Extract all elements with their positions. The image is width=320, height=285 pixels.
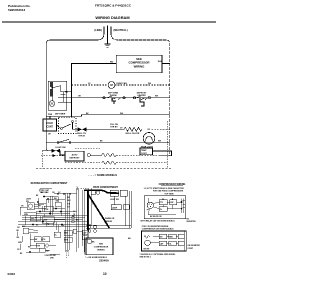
wire color labels main [48,83,162,143]
fridge bottom corner wires [67,238,85,259]
svg-text:CONTROL BD: CONTROL BD [45,255,57,257]
cold control box [43,119,57,131]
svg-text:MULL ON HTR: MULL ON HTR [126,133,140,135]
fridge control label [18,225,25,244]
svg-text:WIRING: WIRING [97,250,105,252]
svg-text:LIGHT SW: LIGHT SW [55,147,65,149]
svg-text:GRN BK: GRN BK [105,221,113,223]
box1 tiny labels [147,201,175,218]
svg-text:10: 10 [103,272,107,276]
freezer liner outline [84,190,119,231]
contact arrows [52,149,60,152]
fridge harness vertical bus [65,188,91,252]
right rail dashed lower [166,121,168,168]
label right of box1 [187,219,197,223]
svg-text:THERM: THERM [109,95,116,97]
fridge top wire row [40,189,77,195]
adaptive defrost box [65,151,84,161]
alt dashed row left [41,155,65,157]
timer motor M1 [49,101,55,107]
resistor defrost heater wavy [102,154,116,157]
corner stub left [42,150,46,152]
box2 resistor [144,236,150,239]
compressor detail box 2 [142,231,187,251]
svg-text:CONT: CONT [46,127,53,129]
wire dashes right [116,154,160,156]
box2 tiny labels [144,237,174,251]
alt wavy row 2 [65,161,167,164]
fridge extra harness detail [20,189,61,254]
svg-text:SEE NOTE 2: SEE NOTE 2 [140,257,151,259]
fridge wire label stack [68,197,72,209]
wire compressor right [162,63,170,65]
see compressor wiring box [86,238,113,255]
svg-text:5995353013: 5995353013 [8,8,25,12]
box1 wires [148,198,182,213]
svg-text:FRT21QRC & F44Q31CC: FRT21QRC & F44Q31CC [95,4,132,8]
label fill on [110,124,140,135]
box1 terminal bar [148,199,185,215]
fridge texture labels [20,190,76,260]
dashed bottom row [36,167,172,169]
svg-text:BK WH RD OR: BK WH RD OR [150,216,162,218]
svg-text:OL: OL [55,235,57,237]
fridge bus labels [17,214,79,229]
switch contacts [57,121,74,130]
svg-text:DEFROST: DEFROST [70,158,81,160]
defrost timer box [48,81,67,110]
wire fan left dashed [72,84,109,86]
svg-text:22546A: 22546A [99,259,109,263]
svg-text:WIRING: WIRING [134,65,146,69]
svg-text:WIRING DIAGRAM: WIRING DIAGRAM [95,15,129,20]
cold control switch dashed box [59,118,77,134]
svg-text:OL: OL [160,209,162,211]
svg-text:SEE: SEE [99,244,104,246]
svg-text:TEMP: TEMP [141,150,147,152]
timer cam switch [52,86,68,102]
svg-text:CONT: CONT [141,153,147,155]
label right of box2 [188,245,201,250]
defrost termination thermostat [103,96,125,104]
alt contact arrows [53,154,56,157]
svg-text:TOP VIEW: TOP VIEW [164,193,173,195]
svg-text:FOR 3 PH INVERTER DRIVEN: FOR 3 PH INVERTER DRIVEN [142,226,169,228]
fridge top labels [26,192,61,203]
svg-text:FOR ONE PIECE COMPRESSORS: FOR ONE PIECE COMPRESSORS [153,191,184,193]
svg-text:- - - - = SOME MODELS: - - - - = SOME MODELS [88,173,117,177]
fridge defrost cluster [30,234,56,249]
run cap box [170,200,177,205]
svg-text:COMP: COMP [188,248,194,250]
svg-text:INVERTER: INVERTER [187,221,197,223]
fridge bottom bus rows [18,216,91,227]
freezer light lamp [143,133,155,145]
svg-text:1,2,3 PTC START RELAY & RUN C: 1,2,3 PTC START RELAY & RUN CAPACITOR [144,187,185,190]
wire defrost bottom row [46,149,65,155]
header publication number [8,4,31,12]
freezer wires bottom [86,191,131,228]
svg-text:ADJ: ADJ [22,225,25,228]
fridge door switch box [27,203,44,210]
label defrost heater [137,92,147,97]
fridge left column labels [17,230,21,251]
dashed vertical left [41,151,43,169]
light switch [57,139,71,143]
svg-text:REFRIGERATOR COMPARTMENT: REFRIGERATOR COMPARTMENT [31,182,68,185]
label mull tn [77,133,86,138]
evap fan motor M2 [108,82,115,89]
svg-text:(NEUTRAL): (NEUTRAL) [114,28,128,32]
fridge lower labels [35,239,57,257]
junction dot [71,115,73,117]
svg-text:COLD: COLD [46,123,53,125]
compressor detail box 1 [144,196,186,219]
svg-text:FRZ CONT: FRZ CONT [41,190,49,192]
header rule [2,21,216,23]
legend some models [88,173,117,177]
wire temp control bracket [153,151,172,156]
svg-text:COMPRESSOR: COMPRESSOR [94,247,109,249]
svg-text:03/02: 03/02 [8,272,16,276]
wire fan right dashed [115,84,170,86]
fridge center cluster [30,199,77,223]
fridge cluster labels [31,206,49,222]
wires timer to bus [67,92,72,102]
freezer lamp box [120,190,127,196]
svg-text:SW: SW [35,239,38,241]
svg-text:COMPRESSOR ON SOME MODELS: COMPRESSOR ON SOME MODELS [142,229,174,231]
defrost heater thermo cluster [133,96,150,106]
resistor mullion heater [124,127,142,131]
compressor motor 1 [147,202,153,208]
dashes after brace [81,187,89,189]
svg-text:HTR M: HTR M [78,136,85,138]
contact pair [78,128,86,131]
svg-text:HTR BY: HTR BY [110,126,118,128]
wire dashed to right rail [152,128,170,130]
freezer connector circles [87,225,91,229]
svg-text:PNK: PNK [48,114,53,116]
power plug prongs [104,26,111,34]
box2 wires [150,231,184,251]
svg-text:(LINE): (LINE) [94,28,102,32]
fridge short verticals [18,197,62,251]
compressor motor 2 [145,240,151,246]
fridge pair labels [65,231,88,241]
freezer sw box [110,190,118,196]
wire mullion heater row [73,128,125,130]
svg-text:AUTO: AUTO [72,153,78,156]
ground symbol [105,44,111,47]
wire neutral side [111,34,170,157]
wire compressor left [72,64,117,117]
wire to heater [90,154,101,156]
overload box [159,207,167,212]
wire mid row [46,115,170,116]
defrost thermostat circle [87,154,90,157]
svg-text:LIGHT SW: LIGHT SW [110,199,119,201]
svg-text:LAMP: LAMP [112,206,118,209]
wire defrost heater row [67,97,170,99]
fridge lower box [39,248,50,252]
label def term [108,92,119,97]
junction dot [71,84,73,86]
svg-text:1 SHOWN 2 & 3 OPTIONAL PER MOD: 1 SHOWN 2 & 3 OPTIONAL PER MODEL [140,253,177,256]
svg-text:BK WH: BK WH [144,249,150,251]
freezer mid boxes [111,205,121,210]
freezer door components [91,191,100,195]
temp control box [140,148,153,155]
svg-text:DEF TIMER: DEF TIMER [55,114,66,116]
wire cold control stub [49,116,51,119]
svg-text:WH: WH [158,61,162,63]
svg-text:EVAP FAN: EVAP FAN [117,82,128,85]
fridge stacked pair boxes [64,229,88,242]
wire line side [46,34,104,151]
freezer tiny labels [105,199,119,223]
compressor box [116,55,162,72]
wire light switch row [46,142,170,144]
fridge control box [22,228,38,242]
ptc relay box [159,200,167,205]
svg-text:FRZR COMPARTMENT: FRZR COMPARTMENT [93,186,118,189]
svg-text:HEATER: HEATER [137,94,146,97]
ground wire [107,34,109,45]
svg-text:WH/BK OR: WH/BK OR [105,218,115,220]
svg-text:OL: OL [169,244,171,246]
inverter boxes [159,234,167,239]
dashed stub row [75,148,100,150]
svg-text:ON INVERTER: ON INVERTER [188,245,201,247]
timer cam bars [50,82,53,87]
svg-text:WITH RELAY CAP ON SOME MODELS: WITH RELAY CAP ON SOME MODELS [141,220,176,223]
